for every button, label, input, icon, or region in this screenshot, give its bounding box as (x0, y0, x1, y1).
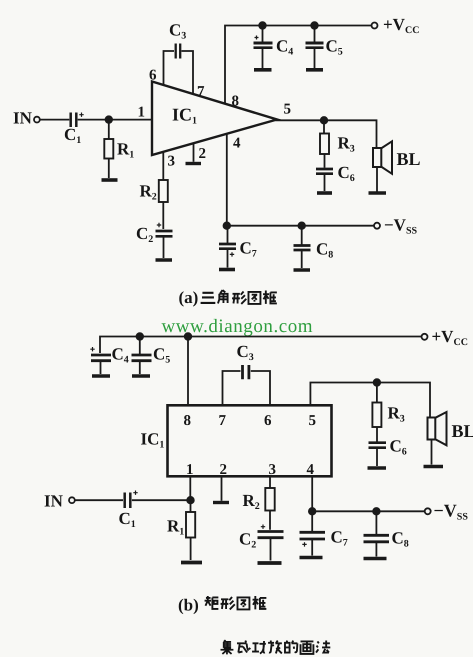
caption (b) rectangle form (178, 596, 266, 615)
value label C4 (b) (112, 345, 129, 366)
resistor R3 (b) (372, 383, 381, 442)
op-amp IC1 triangle (a) (152, 82, 277, 156)
svg-text:4: 4 (233, 136, 241, 152)
capacitor C2 (b) (258, 525, 284, 561)
label BL (a) (397, 149, 421, 169)
svg-text:8: 8 (232, 94, 240, 110)
ground below BL (b) (424, 465, 444, 469)
capacitor C1 (a) (40, 113, 152, 128)
IC1 rectangle (b) (168, 405, 332, 476)
svg-text:5: 5 (309, 413, 317, 429)
caption integrated amplifier drawing method (221, 640, 331, 654)
value label R1 (a) (117, 140, 134, 161)
pin number 4 (b) (307, 462, 315, 478)
value label C2 (b) (239, 530, 256, 551)
value label C7 (a) (240, 239, 257, 260)
label IN (b) (44, 492, 64, 511)
terminal -Vss (a) (374, 223, 380, 229)
capacitor C1 (b) (75, 491, 191, 509)
ground below C5 (a) (306, 68, 323, 72)
value label R2 (a) (140, 182, 157, 203)
svg-text:4: 4 (307, 462, 315, 478)
svg-text:5: 5 (284, 102, 292, 118)
svg-text:3: 3 (168, 154, 176, 170)
pin number 6 (a) (149, 68, 157, 84)
resistor R2 (b) (265, 478, 274, 530)
node C4 junction (a) (259, 22, 266, 29)
wire pin 4 riser (b) (311, 478, 313, 512)
node input junction (a) (106, 116, 113, 123)
ground below C7 (a) (219, 268, 235, 272)
ground below C5 (b) (132, 374, 150, 378)
resistor R1 (b) (186, 500, 195, 560)
wire pin 5 branch (b) (310, 383, 430, 418)
value label C5 (b) (153, 345, 170, 366)
svg-text:7: 7 (219, 413, 227, 429)
ground below C8 (a) (294, 268, 311, 272)
watermark www.diangon.com (162, 316, 314, 337)
svg-text:6: 6 (264, 413, 272, 429)
ground below C4 (b) (92, 374, 110, 378)
pin number 5 (a) (284, 102, 292, 118)
svg-text:www.diangon.com: www.diangon.com (162, 316, 314, 337)
wire pin 4 riser (a) (226, 134, 228, 226)
node R3 junction (b) (374, 379, 381, 386)
label IC1 (a) (172, 105, 197, 127)
pin number 6 (b) (264, 413, 272, 429)
terminal +Vcc (b) (422, 334, 428, 340)
node C8 junction (b) (373, 508, 380, 515)
capacitor C4 (b) (90, 347, 111, 374)
input terminal IN (b) (69, 497, 75, 503)
wire +Vcc rail (b) (100, 337, 421, 354)
ground below C8 (b) (364, 557, 387, 561)
capacitor C5 (a) (306, 26, 324, 69)
resistor R1 (a) (104, 120, 113, 178)
wire pin 1 riser (b) (189, 478, 191, 501)
node R3 junction (a) (321, 117, 328, 124)
pin number 1 (b) (186, 462, 194, 478)
svg-text:2: 2 (220, 462, 228, 478)
value label C6 (b) (390, 437, 407, 458)
value label C7 (b) (331, 528, 348, 549)
value label C8 (b) (392, 529, 409, 550)
capacitor C7 (a) (219, 226, 236, 268)
resistor R3 (a) (320, 120, 329, 168)
svg-text:3: 3 (269, 462, 277, 478)
pin number 8 (b) (184, 413, 192, 429)
wire +Vcc rail (a) with pin-8 riser (225, 26, 371, 104)
svg-text:(a): (a) (179, 288, 199, 307)
speaker BL (a) (373, 141, 392, 191)
capacitor C3 loop (a) (164, 44, 194, 94)
terminal +Vcc (a) (372, 23, 378, 29)
value label C2 (a) (136, 224, 153, 245)
wire pin 8 riser (b) (187, 337, 189, 407)
value label R3 (a) (338, 134, 355, 155)
capacitor C2 (a) (156, 223, 173, 258)
capacitor C7 (b) (300, 511, 326, 555)
node C7 junction (b) (309, 508, 316, 515)
label IC1 (b) (141, 430, 165, 451)
capacitor C4 (a) (254, 26, 273, 69)
node pin 8 junction (b) (185, 333, 192, 340)
node C5 junction (a) (311, 22, 318, 29)
speaker BL (b) (428, 412, 447, 465)
value label C8 (a) (316, 240, 333, 261)
pin number 8 (a) (232, 94, 240, 110)
capacitor C8 (a) (294, 226, 311, 268)
ground below BL (a) (369, 191, 387, 195)
node C7 junction (a) (224, 222, 231, 229)
node C8 junction (a) (298, 222, 305, 229)
node C5 junction (b) (137, 333, 144, 340)
caption (a) triangle form (179, 288, 277, 307)
value label C1 (a) (64, 125, 81, 146)
label -Vss (a) (384, 216, 418, 237)
svg-text:1: 1 (138, 105, 146, 121)
wire -Vss rail (a) (227, 225, 374, 227)
ground pin 2 (a) (186, 143, 202, 163)
ground below C6 (b) (368, 466, 387, 470)
label -Vss (b) (434, 501, 469, 523)
pin number 1 (a) (138, 105, 146, 121)
pin number 3 (a) (168, 154, 176, 170)
ground below C7 (b) (300, 556, 323, 560)
pin number 4 (a) (233, 136, 241, 152)
ground below C6 (a) (317, 191, 332, 195)
wire output pin 5 (a) (276, 120, 377, 148)
pin number 2 (a) (199, 146, 207, 162)
ground below C2 (b) (258, 561, 282, 565)
capacitor C8 (b) (364, 511, 390, 556)
pin number 7 (a) (197, 84, 205, 100)
value label R3 (b) (388, 404, 405, 425)
wire -Vss rail (b) (312, 510, 424, 512)
pin number 2 (b) (220, 462, 228, 478)
label BL (b) (452, 421, 473, 441)
value label C5 (a) (326, 37, 343, 58)
value label C1 (b) (119, 509, 136, 530)
capacitor C5 (b) (132, 337, 152, 375)
label IN (a) (13, 109, 33, 128)
svg-text:2: 2 (199, 146, 207, 162)
value label R2 (b) (243, 491, 260, 512)
ground below R1 (b) (181, 561, 202, 565)
pin number 3 (b) (269, 462, 277, 478)
svg-text:IN: IN (13, 109, 33, 128)
svg-text:6: 6 (149, 68, 157, 84)
ground below R1 (a) (102, 178, 118, 182)
ground below C4 (a) (254, 68, 272, 72)
value label R1 (b) (167, 517, 184, 538)
value label C3 (a) (169, 21, 186, 42)
svg-text:8: 8 (184, 413, 192, 429)
ground below C2 (a) (156, 258, 173, 262)
capacitor C3 loop (b) (223, 365, 271, 407)
svg-text:(b): (b) (178, 596, 199, 615)
svg-text:1: 1 (186, 462, 194, 478)
capacitor C6 (a) (316, 169, 333, 191)
svg-text:BL: BL (397, 149, 421, 169)
node input junction (b) (187, 497, 194, 504)
value label C3 (b) (237, 342, 254, 363)
ground pin 2 (b) (213, 478, 229, 503)
value label C6 (a) (338, 163, 355, 184)
svg-text:IN: IN (44, 492, 64, 511)
svg-text:BL: BL (452, 421, 473, 441)
terminal -Vss (b) (425, 508, 431, 514)
input terminal IN (a) (34, 117, 40, 123)
capacitor C6 (b) (369, 443, 387, 466)
value label C4 (a) (276, 37, 293, 58)
label +Vcc (a) (383, 15, 419, 36)
label +Vcc (b) (432, 327, 468, 348)
pin number 5 (b) (309, 413, 317, 429)
svg-text:7: 7 (197, 84, 205, 100)
resistor R2 (a) (159, 152, 168, 229)
pin number 7 (b) (219, 413, 227, 429)
